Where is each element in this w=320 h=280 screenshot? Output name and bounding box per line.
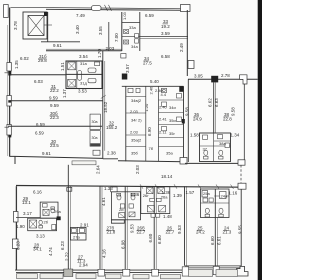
svg-text:6.62: 6.62 (208, 98, 213, 107)
svg-text:6.58: 6.58 (161, 54, 170, 59)
bottom corner step (10, 156, 16, 164)
svg-text:1.90: 1.90 (16, 224, 25, 229)
svg-text:1.03: 1.03 (122, 11, 127, 20)
svg-text:35г: 35г (169, 131, 175, 136)
svg-text:29а: 29а (54, 209, 61, 214)
svg-text:1.57: 1.57 (186, 190, 195, 195)
wall 27 / 27b (99, 186, 101, 270)
svg-text:2б: 2б (44, 220, 49, 225)
svg-text:6.98: 6.98 (120, 240, 125, 249)
room 34 bottom wall (122, 85, 184, 87)
svg-text:1.34: 1.34 (231, 133, 240, 138)
svg-text:24а: 24а (221, 194, 228, 199)
bottom right pedestal (234, 266, 249, 276)
svg-text:3.54: 3.54 (79, 54, 88, 59)
stairwell bottom wall (41, 41, 80, 43)
svg-text:9.58: 9.58 (185, 107, 190, 116)
bathtub vertical (78, 71, 82, 81)
wall between 30b and 30 (8, 125, 102, 127)
long corridor bottom wall (16, 186, 242, 188)
bottom exterior wall left part (15, 270, 185, 272)
top wall ticks (105, 5, 112, 11)
svg-text:6.59: 6.59 (36, 122, 45, 127)
left wall window top box (4, 5, 9, 18)
svg-text:26а: 26а (161, 195, 168, 200)
lower left windows (13, 212, 18, 223)
bath unit 31a/31d outer (66, 61, 102, 89)
svg-text:1.39: 1.39 (173, 193, 182, 198)
svg-text:30а: 30а (92, 120, 98, 124)
svg-text:2.91: 2.91 (80, 223, 89, 228)
right bath inner walls (200, 133, 231, 162)
svg-text:34г 2): 34г 2) (131, 118, 142, 123)
svg-text:1.36: 1.36 (131, 192, 140, 197)
left wall dark segments (8, 71, 11, 76)
35-row bottom wall (118, 161, 184, 162)
corridor bottom wall right section (185, 162, 242, 164)
svg-text:6.02: 6.02 (20, 56, 29, 61)
svg-text:19.2: 19.2 (161, 24, 170, 29)
svg-text:3.13: 3.13 (36, 234, 45, 239)
corridor upper left wall (108, 22, 110, 51)
svg-text:9.53: 9.53 (177, 225, 182, 234)
svg-text:5.40: 5.40 (150, 79, 159, 84)
svg-text:2и: 2и (119, 207, 123, 212)
svg-text:22.8: 22.8 (223, 117, 232, 122)
svg-text:1.16: 1.16 (229, 191, 238, 196)
right scan border bar (258, 0, 262, 280)
svg-text:1.35: 1.35 (14, 60, 19, 69)
bottom exterior wall right part (185, 266, 241, 268)
top-right pilaster (181, 5, 191, 12)
wall between 31b and 31 (10, 74, 66, 76)
svg-text:2.49: 2.49 (179, 43, 184, 52)
room number underlines (23, 24, 230, 260)
right bath cluster outer (200, 133, 231, 162)
ledge strip below wall (72, 161, 96, 165)
elevator cab with cross (28, 16, 44, 36)
apt29/28 divider (16, 217, 40, 219)
34-cluster top fixtures (128, 88, 133, 92)
34-cluster left col cells (126, 97, 146, 147)
cluster corner dark blocks (179, 86, 183, 92)
wall 26 / right lower block (184, 186, 186, 266)
apt29 bath box (40, 202, 58, 218)
wall 27b / 26b (124, 186, 126, 270)
closets 30a left of corridor (90, 114, 100, 129)
tick on corridor wall (101, 95, 106, 98)
svg-text:1.48: 1.48 (163, 214, 172, 219)
cluster2 fixtures (147, 187, 154, 193)
wall between 31 and 30b (10, 100, 103, 102)
apt28 bath box (28, 218, 57, 231)
31d shower box (68, 79, 76, 87)
left block bottom wall (15, 156, 103, 158)
34-cluster right wall (183, 86, 185, 161)
svg-text:2.03: 2.03 (130, 130, 139, 135)
wc stack right wall (139, 12, 141, 51)
svg-text:33а: 33а (129, 25, 136, 30)
svg-text:3.05: 3.05 (194, 74, 203, 79)
svg-text:2.72: 2.72 (65, 252, 70, 261)
31a shower box (68, 62, 76, 70)
svg-text:38а: 38а (219, 141, 226, 146)
svg-text:3.40: 3.40 (75, 25, 80, 34)
31d basin (88, 78, 96, 82)
corridor wall end block (67, 187, 72, 191)
svg-text:35и: 35и (169, 118, 176, 123)
top wall pilaster (92, 6, 102, 11)
svg-text:31д: 31д (80, 81, 87, 86)
svg-text:9.53: 9.53 (130, 224, 135, 233)
svg-text:24.9: 24.9 (193, 117, 202, 122)
svg-text:1.20: 1.20 (144, 103, 149, 112)
svg-text:30а: 30а (92, 136, 98, 140)
svg-text:2.03: 2.03 (106, 46, 115, 51)
right bath fixtures (203, 135, 208, 139)
pilaster at corridor/cluster corner (122, 74, 128, 80)
svg-text:18.52: 18.52 (103, 101, 108, 113)
svg-text:26г: 26г (143, 193, 149, 198)
stairwell right wall (47, 12, 49, 42)
svg-text:7.49: 7.49 (76, 13, 85, 18)
svg-text:6.60: 6.60 (148, 233, 153, 242)
corridor right wall (125, 86, 127, 161)
svg-text:3.59: 3.59 (161, 31, 170, 36)
2L box (111, 187, 118, 192)
svg-text:34а: 34а (131, 44, 138, 49)
right rooms right wall (243, 84, 245, 160)
svg-text:9.58: 9.58 (231, 107, 236, 116)
svg-text:6.23: 6.23 (60, 241, 65, 250)
svg-text:6.90: 6.90 (147, 127, 152, 136)
svg-text:7б: 7б (149, 146, 154, 151)
svg-text:4.16: 4.16 (102, 249, 107, 258)
svg-text:6.60: 6.60 (210, 236, 215, 245)
svg-text:35а: 35а (166, 151, 173, 156)
svg-text:1.51: 1.51 (60, 62, 65, 71)
top right corner block (240, 75, 248, 84)
cluster1 fixtures (117, 195, 121, 200)
svg-text:2.40: 2.40 (159, 105, 168, 110)
svg-text:35а(2: 35а(2 (131, 138, 142, 143)
svg-text:18.14: 18.14 (161, 174, 173, 179)
svg-text:1.70: 1.70 (97, 49, 102, 58)
bath divider (66, 73, 102, 75)
right lower block right wall (240, 189, 242, 268)
svg-text:3.53: 3.53 (78, 89, 87, 94)
wall top of room 31b (46, 50, 122, 52)
25/24 bath cluster (201, 189, 230, 218)
svg-text:2.78: 2.78 (221, 73, 230, 78)
svg-text:4.61: 4.61 (101, 197, 106, 206)
door foot on corridor wall (121, 54, 126, 59)
svg-text:35б: 35б (131, 151, 138, 156)
svg-text:6.60: 6.60 (157, 235, 162, 244)
svg-text:34в(2: 34в(2 (131, 98, 142, 103)
34-cluster mid verticals (145, 86, 147, 161)
wall feet on bottom wall (64, 269, 73, 277)
svg-text:2.64: 2.64 (96, 165, 101, 174)
svg-text:3.55: 3.55 (98, 26, 103, 35)
apt 27 bath boxes (71, 227, 87, 240)
svg-text:9.59: 9.59 (50, 103, 59, 108)
34-cluster right col cells (159, 100, 184, 147)
wc fixtures top cell (124, 30, 129, 34)
corridor upper right wall (121, 12, 123, 51)
wall 25 / 24 (214, 189, 216, 266)
svg-text:1.33: 1.33 (104, 186, 113, 191)
cluster2 26b/26 bath units (141, 187, 170, 214)
svg-text:1.37: 1.37 (62, 89, 67, 98)
svg-text:9.61: 9.61 (42, 151, 51, 156)
room 33 bottom wall (140, 36, 188, 38)
svg-text:9.59: 9.59 (49, 96, 58, 101)
svg-text:6.59: 6.59 (145, 13, 154, 18)
corridor left wall (103, 51, 118, 159)
svg-text:3.57: 3.57 (125, 64, 130, 73)
svg-text:6.16: 6.16 (33, 190, 42, 195)
svg-text:6.63: 6.63 (214, 98, 219, 107)
svg-text:2.38: 2.38 (107, 151, 116, 156)
svg-text:3.78: 3.78 (13, 21, 18, 30)
wc fixtures lower cell (124, 40, 129, 44)
svg-text:2.03: 2.03 (130, 109, 139, 114)
lower left wall (15, 186, 17, 270)
top exterior wall (11, 7, 191, 9)
wc stack cells (122, 23, 140, 37)
svg-text:4.4: 4.4 (161, 92, 167, 97)
svg-text:27а: 27а (73, 235, 80, 240)
pilaster on right top wall (211, 76, 218, 83)
cluster1 27b/26b bath units (111, 192, 140, 220)
svg-text:2.94: 2.94 (79, 263, 88, 268)
right rooms top wall (188, 78, 258, 80)
svg-text:6.23: 6.23 (16, 241, 21, 250)
pilaster below 34-room right wall (188, 61, 194, 69)
right rooms left wall (187, 79, 189, 162)
left exterior wall upper block (9, 8, 11, 157)
31a basin (88, 68, 96, 72)
svg-text:155.2: 155.2 (106, 125, 118, 130)
svg-text:3.17: 3.17 (23, 211, 32, 216)
svg-text:31а: 31а (80, 61, 87, 66)
svg-text:2.46: 2.46 (149, 86, 154, 95)
svg-text:9.61: 9.61 (53, 43, 62, 48)
apt 27 left wall (67, 165, 69, 271)
svg-text:2.03: 2.03 (135, 165, 140, 174)
svg-text:27.5: 27.5 (143, 61, 152, 66)
svg-text:2.41: 2.41 (159, 117, 168, 122)
31a/31d inner vertical (76, 61, 78, 89)
svg-text:6.61: 6.61 (217, 236, 222, 245)
svg-text:34и: 34и (169, 105, 176, 110)
svg-text:6.03: 6.03 (34, 79, 43, 84)
svg-text:7.00: 7.00 (114, 33, 119, 42)
wall 26b / 26 (153, 186, 155, 270)
right rooms divider wall (213, 83, 215, 134)
svg-text:1.58: 1.58 (190, 133, 199, 138)
balconies (17, 274, 38, 279)
left wall stub ticks (5, 73, 10, 127)
middle block right wall (186, 10, 188, 76)
elevator shaft outer (23, 12, 47, 39)
svg-text:9.55: 9.55 (238, 225, 243, 234)
dashed corridor line (240, 165, 242, 183)
svg-text:37: 37 (203, 147, 208, 152)
left wall windows (7, 63, 11, 72)
svg-text:2.11: 2.11 (159, 130, 167, 135)
svg-text:6.59: 6.59 (35, 131, 44, 136)
elevator corner block (44, 12, 48, 16)
svg-text:4.74: 4.74 (48, 247, 53, 256)
svg-text:25а: 25а (203, 191, 210, 196)
